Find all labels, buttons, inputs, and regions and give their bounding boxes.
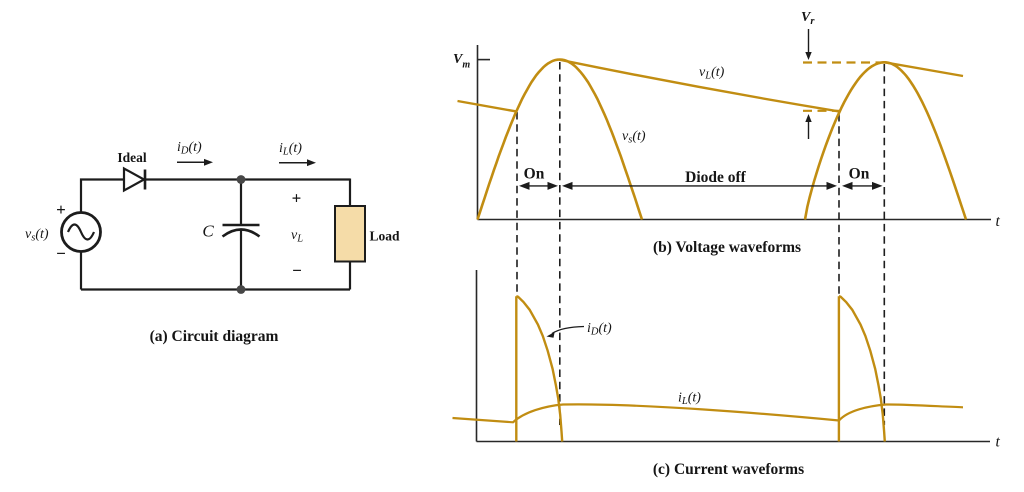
svg-text:−: −: [56, 244, 66, 263]
diode D1 (ideal) triangle: [124, 169, 144, 191]
svg-text:vs(t): vs(t): [25, 227, 49, 244]
dashed orange segment at ripple minimum level: [803, 110, 841, 112]
svg-text:iL(t): iL(t): [678, 391, 701, 408]
curve iL(t) load current: [453, 404, 964, 422]
curve iD(t) first spike decay: [516, 296, 562, 441]
arrow double-headed second On interval: [853, 185, 873, 187]
svg-text:+: +: [56, 200, 66, 219]
curve iD(t) second spike decay: [839, 296, 885, 441]
curve vL(t) decay segment after second peak: [885, 62, 964, 76]
svg-text:iL(t): iL(t): [279, 141, 302, 158]
wire: top segment from diode cathode through node to load branch: [145, 178, 350, 180]
wire: capacitor branch top: [240, 181, 242, 225]
axis: y-axis of graph b: [477, 45, 479, 220]
load resistor rectangle: [335, 206, 365, 262]
svg-text:(a) Circuit diagram: (a) Circuit diagram: [150, 328, 279, 345]
dashed guide line at second peak x=884.3: [883, 64, 885, 425]
leader arrow from iD(t) label to curve: [552, 327, 584, 334]
wire: capacitor branch bottom: [240, 230, 242, 290]
curve iD(t) second spike rising edge: [838, 296, 840, 441]
dashed guide line at second crossing x=839: [838, 114, 840, 296]
curve iD(t) first spike rising edge: [515, 296, 517, 441]
wire: load bottom to bottom rail: [349, 262, 351, 290]
svg-text:+: +: [292, 189, 302, 208]
svg-text:Load: Load: [370, 229, 401, 244]
svg-text:Ideal: Ideal: [117, 150, 147, 165]
arrow double-headed Diode off interval: [573, 185, 827, 187]
svg-text:vs(t): vs(t): [622, 129, 646, 146]
svg-text:vL: vL: [291, 228, 303, 245]
voltage source VS circle: [62, 213, 101, 252]
svg-text:(b) Voltage waveforms: (b) Voltage waveforms: [653, 239, 801, 256]
axis: t-axis of graph c: [477, 441, 991, 443]
svg-text:iD(t): iD(t): [177, 140, 202, 157]
svg-text:iD(t): iD(t): [587, 321, 612, 338]
svg-text:t: t: [996, 213, 1001, 230]
arrow up to ripple minimum level: [808, 120, 810, 139]
axis: y-axis of graph c: [476, 270, 478, 442]
diode D1 cathode bar: [144, 170, 147, 190]
curve vs(t) first half-sine hump: [478, 60, 643, 220]
capacitor C curved bottom plate: [223, 230, 260, 237]
dashed guide line at first peak x=559.8: [559, 62, 561, 425]
svg-text:C: C: [202, 222, 214, 241]
wire: bottom rail: [81, 288, 350, 290]
svg-text:vL(t): vL(t): [699, 65, 725, 82]
curve vs(t) second half-sine hump: [805, 62, 966, 219]
voltage source sine symbol: [68, 225, 94, 240]
arrow for iL current direction: [279, 162, 309, 164]
svg-text:−: −: [292, 261, 302, 280]
node top junction dot: [237, 175, 246, 184]
svg-text:t: t: [996, 434, 1001, 451]
curve vL(t) main decay segment from first peak to second crossing: [560, 60, 839, 112]
wire: right branch down to load top: [349, 179, 351, 207]
arrow for iD current direction: [177, 161, 206, 163]
wire: source bottom to bottom rail: [80, 252, 82, 290]
svg-text:On: On: [524, 166, 545, 183]
svg-text:Vr: Vr: [801, 10, 815, 27]
Vm tick mark: [478, 59, 490, 61]
wire: top left segment from source top to diode anode: [81, 180, 124, 213]
dashed orange line at peak level: [803, 61, 886, 63]
svg-text:On: On: [849, 166, 870, 183]
arrow down from Vr to peak level: [808, 29, 810, 54]
capacitor C top plate: [223, 224, 260, 227]
dashed guide line at first crossing x=517: [516, 112, 518, 296]
axis: t-axis of graph b: [478, 219, 992, 221]
curve vL(t) decay segment before t=0: [458, 101, 518, 112]
svg-text:Diode off: Diode off: [685, 169, 747, 186]
svg-text:(c) Current waveforms: (c) Current waveforms: [653, 461, 804, 478]
svg-text:Vm: Vm: [453, 52, 470, 71]
node bottom junction dot: [237, 285, 246, 294]
arrow double-headed first On interval: [530, 185, 548, 187]
